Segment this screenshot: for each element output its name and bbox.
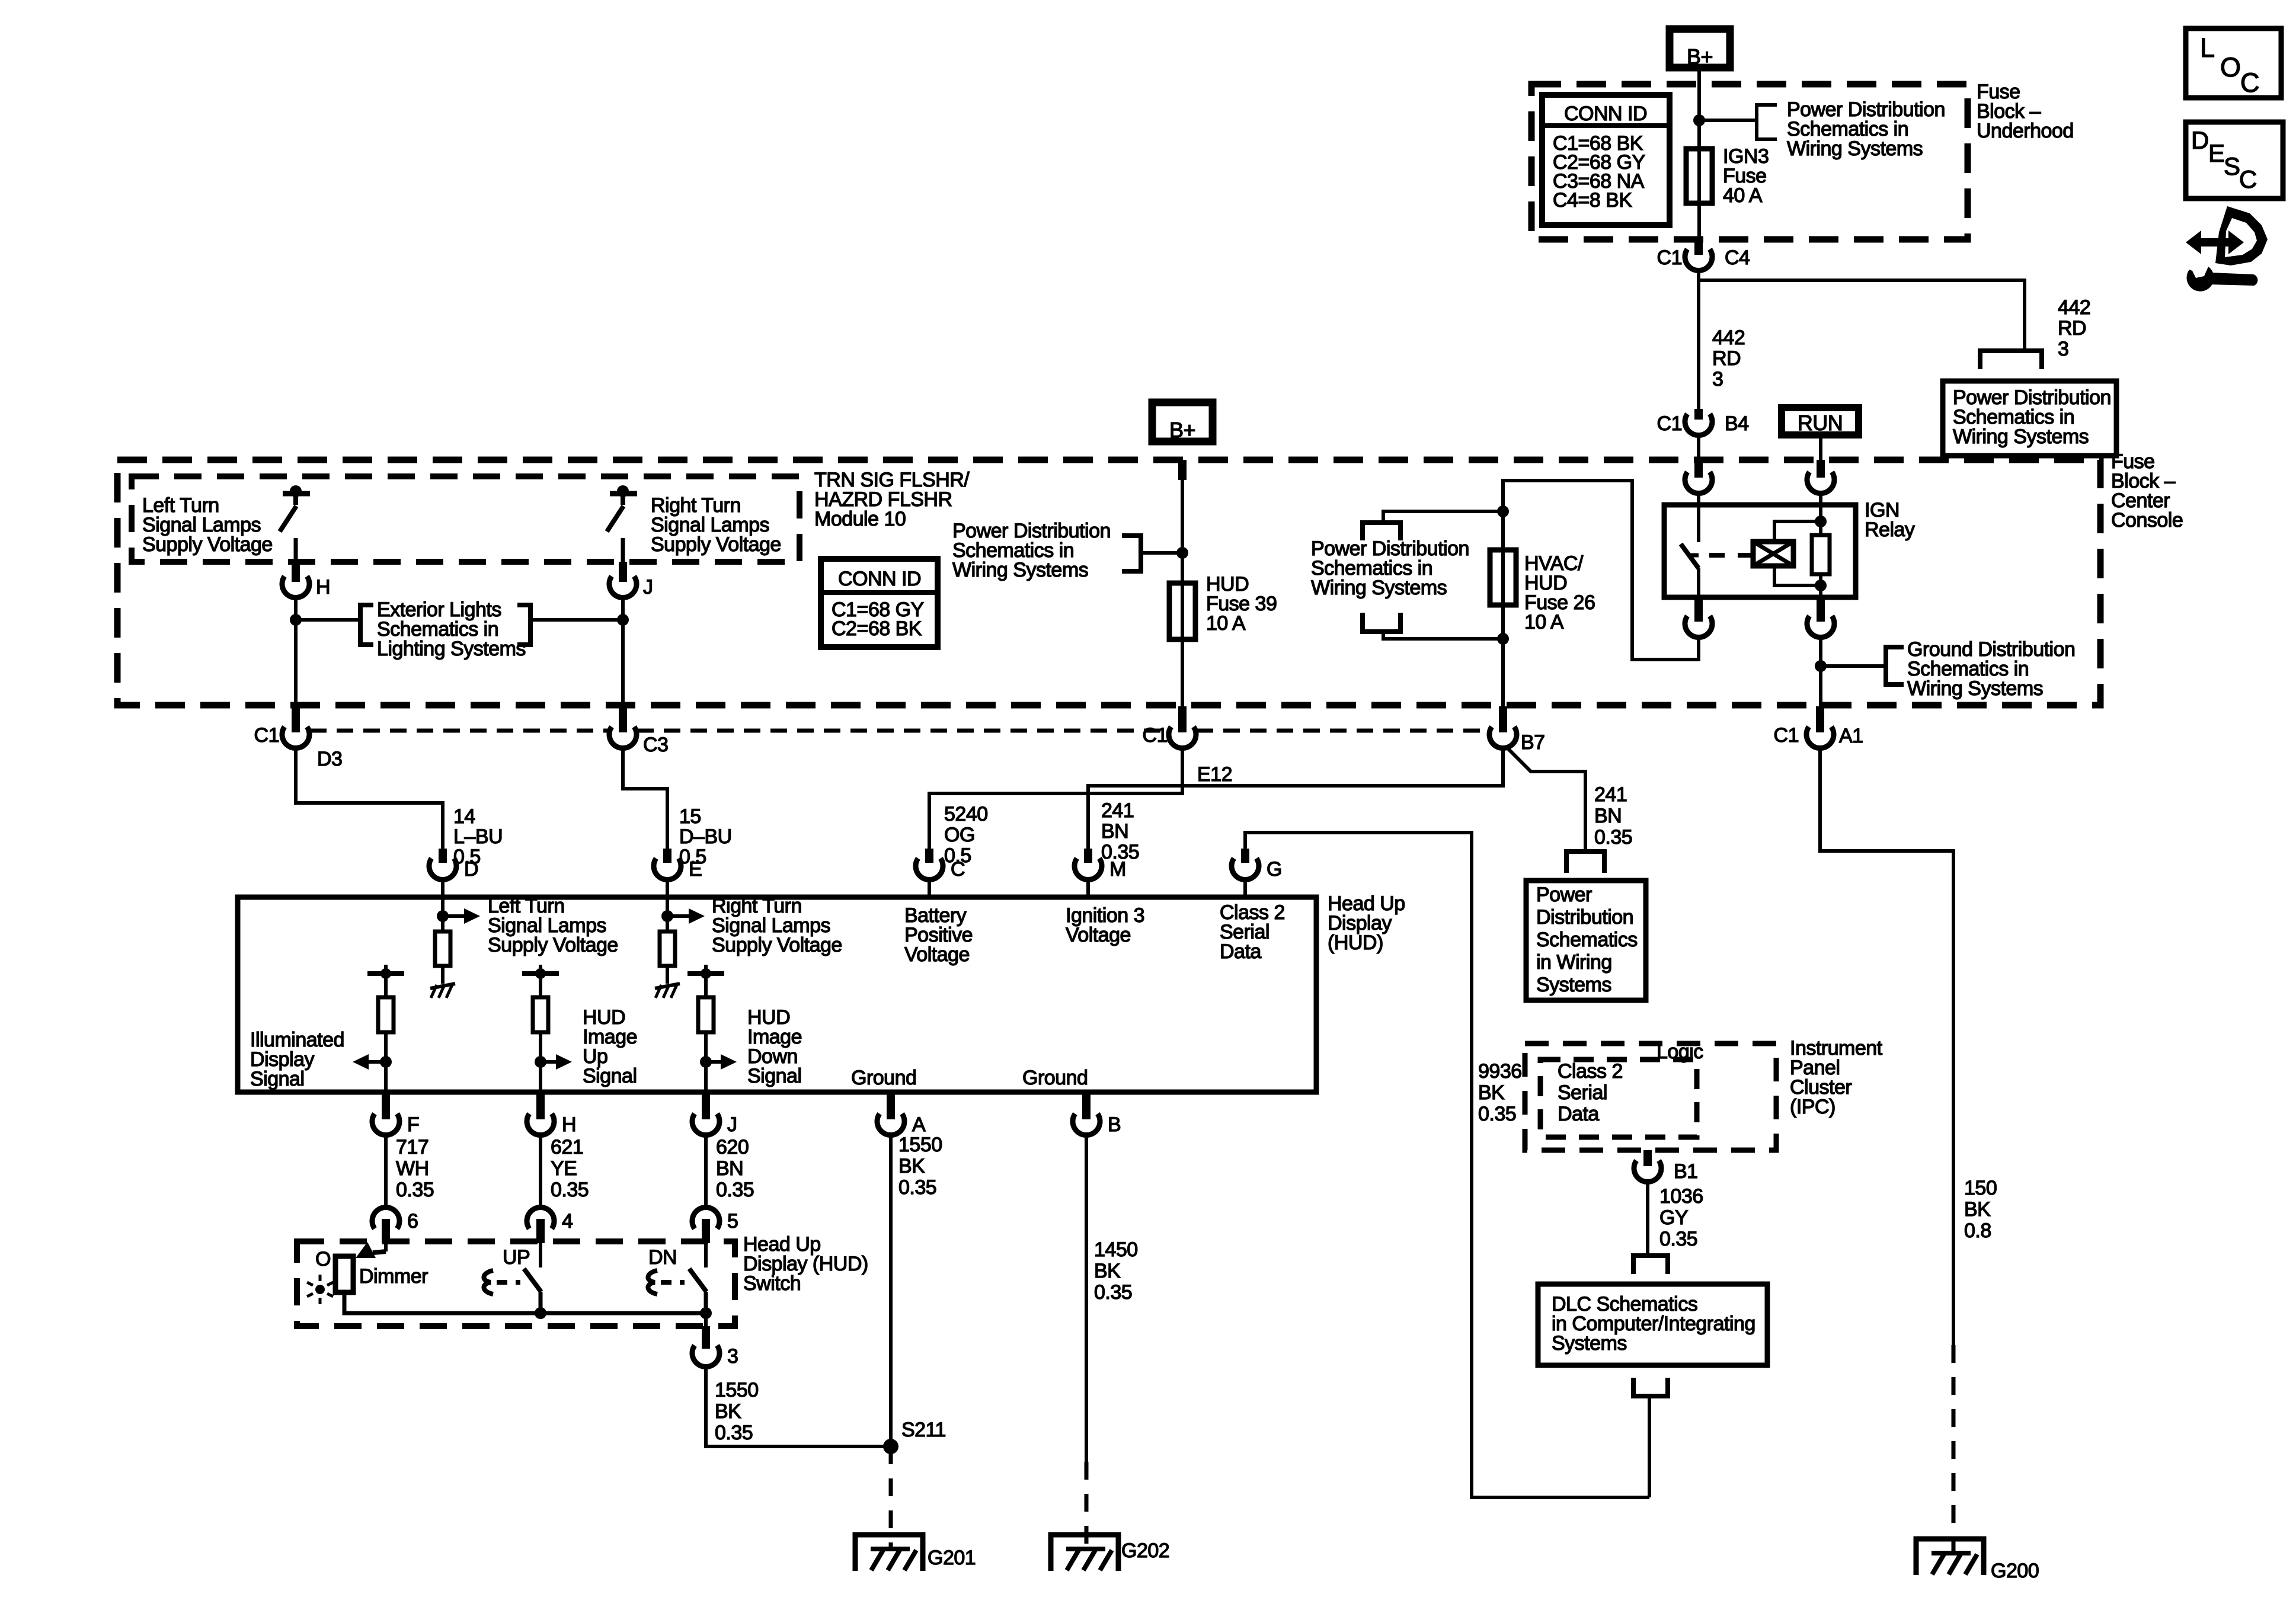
svg-text:10 A: 10 A <box>1206 612 1246 635</box>
fuse HVAC/HUD 26 10A <box>1490 550 1516 605</box>
LOC button box <box>2186 28 2281 98</box>
svg-text:S: S <box>2224 152 2240 180</box>
wire 5240 OG 0.5 from E12 <box>929 748 1182 856</box>
wire B+ through HUD fuse 39 <box>1181 480 1184 706</box>
svg-text:RD: RD <box>2058 317 2086 340</box>
svg-text:C: C <box>2239 165 2257 193</box>
relay switch pole <box>1697 492 1700 542</box>
svg-text:DN: DN <box>648 1246 677 1269</box>
coil bottom wire <box>1774 566 1821 585</box>
wire J to C3 <box>621 597 625 706</box>
relay output pins <box>1694 597 1703 622</box>
svg-text:150: 150 <box>1964 1177 1997 1199</box>
fuse block pin connector (left, bottom) <box>1685 616 1712 638</box>
svg-text:BN: BN <box>1101 820 1128 843</box>
svg-text:C3: C3 <box>643 734 668 756</box>
svg-text:6: 6 <box>407 1210 418 1233</box>
svg-text:F: F <box>407 1113 419 1136</box>
connector half-box below DLC <box>1633 1378 1668 1396</box>
junction HVAC fuse bottom <box>1497 633 1509 645</box>
svg-text:B4: B4 <box>1725 412 1749 435</box>
svg-text:B1: B1 <box>1674 1160 1698 1183</box>
svg-text:C: C <box>2240 68 2259 98</box>
svg-text:C1: C1 <box>1657 247 1682 269</box>
connector C1/A1 <box>1816 706 1824 732</box>
svg-text:1450: 1450 <box>1094 1238 1138 1261</box>
connector C1/D3 <box>282 727 309 748</box>
svg-text:0.35: 0.35 <box>396 1179 434 1201</box>
svg-text:Ground: Ground <box>1022 1067 1088 1089</box>
box DLC Schematics <box>1538 1284 1767 1365</box>
svg-text:L: L <box>2200 33 2215 63</box>
wire 442 RD 3 branch to power distribution <box>1699 280 2025 351</box>
connector 4 (switch) <box>527 1208 554 1229</box>
connector inline dashed line <box>310 729 609 733</box>
junction on B+ feed <box>1693 114 1705 126</box>
connector A (HUD) <box>887 1092 895 1119</box>
svg-text:B+: B+ <box>1169 418 1195 442</box>
interactive arrow-hand icon <box>2186 231 2244 254</box>
ground G201 <box>855 1535 923 1571</box>
callout bracket top <box>1363 523 1400 540</box>
junction at fuse 39 <box>1176 547 1188 559</box>
pin into connector E12 <box>1178 706 1187 732</box>
callout bracket to power distribution box <box>1980 351 2042 369</box>
connector C1/B4 <box>1685 414 1712 436</box>
svg-text:0.35: 0.35 <box>1478 1103 1516 1125</box>
wire class 2 serial data from G <box>1245 833 1649 1497</box>
DESC button box <box>2186 122 2283 199</box>
svg-text:Wiring Systems: Wiring Systems <box>1907 677 2043 700</box>
svg-text:D: D <box>464 858 478 881</box>
svg-text:CONN ID: CONN ID <box>1564 103 1647 125</box>
wire 241 BN 0.35 from B7 to M <box>1088 748 1503 856</box>
wire M into module <box>1086 879 1090 897</box>
dimmer rheostat <box>335 1256 353 1292</box>
svg-text:CONN ID: CONN ID <box>838 568 921 590</box>
svg-text:Distribution: Distribution <box>1536 906 1633 929</box>
connector C1/E12 <box>1169 727 1196 748</box>
callout bracket exterior lights left <box>360 605 373 645</box>
wire B7 branch diagonal <box>1506 747 1585 852</box>
svg-text:H: H <box>316 576 330 598</box>
fuse HUD 39 10A <box>1169 583 1195 639</box>
svg-text:UP: UP <box>503 1246 530 1269</box>
CONN ID table (underhood) <box>1542 95 1670 225</box>
callout bracket ground distribution <box>1886 647 1904 684</box>
svg-text:621: 621 <box>551 1136 583 1158</box>
HUD internal driver column H <box>539 965 542 974</box>
svg-text:Systems: Systems <box>1552 1332 1627 1355</box>
svg-text:in Wiring: in Wiring <box>1536 951 1612 974</box>
callout bracket exterior lights right <box>517 605 530 645</box>
svg-text:Class 2: Class 2 <box>1558 1060 1623 1083</box>
wire J to switch 5 <box>704 1135 708 1207</box>
svg-text:C1: C1 <box>1143 724 1168 747</box>
svg-text:3: 3 <box>1712 368 1723 391</box>
svg-text:Wiring Systems: Wiring Systems <box>1953 425 2089 448</box>
svg-text:J: J <box>727 1113 737 1136</box>
svg-text:OG: OG <box>944 824 975 846</box>
connector half-box to DLC <box>1633 1256 1668 1274</box>
svg-text:Supply Voltage: Supply Voltage <box>142 533 273 556</box>
wire 14 L-BU 0.5 <box>296 748 443 856</box>
wire H to C1/D3 <box>294 597 298 706</box>
HUD module box <box>238 897 1316 1092</box>
pin into connector D3 <box>292 706 300 732</box>
svg-text:241: 241 <box>1101 799 1134 822</box>
dashed wire to G200 <box>1952 1345 1956 1553</box>
pin into connector H <box>292 562 300 582</box>
wire 1550 BK to S211 <box>706 1367 891 1446</box>
dimmer output wire <box>344 1292 706 1313</box>
connector J (flasher) <box>609 577 637 598</box>
HUD internal driver column F <box>384 965 388 974</box>
callout bracket (TRN SIG area) <box>1122 536 1141 571</box>
connector C1/C4 <box>1685 249 1712 271</box>
IGN relay box <box>1664 505 1856 597</box>
svg-text:E: E <box>689 858 702 881</box>
svg-text:620: 620 <box>716 1136 749 1158</box>
power symbol B+ (center) <box>1152 402 1213 441</box>
svg-text:3: 3 <box>2058 338 2068 360</box>
svg-text:G201: G201 <box>928 1547 976 1569</box>
svg-text:Supply Voltage: Supply Voltage <box>712 934 842 956</box>
svg-text:0.35: 0.35 <box>715 1422 753 1444</box>
wire to power distribution callout <box>1699 119 1757 122</box>
wire relay ground leg to A1 <box>1819 636 1822 706</box>
svg-text:D: D <box>2191 126 2209 154</box>
chassis ground left <box>430 984 455 988</box>
svg-text:B+: B+ <box>1687 44 1713 69</box>
svg-text:B7: B7 <box>1521 731 1545 754</box>
svg-text:BK: BK <box>898 1155 925 1177</box>
svg-text:3: 3 <box>727 1345 738 1368</box>
svg-text:442: 442 <box>2058 296 2090 319</box>
connector F (HUD) <box>382 1092 390 1119</box>
connector B (HUD) <box>1082 1092 1091 1119</box>
svg-text:4: 4 <box>562 1210 573 1233</box>
relay resistor <box>1819 492 1822 535</box>
wire DLC loop to 9936 <box>1648 1396 1651 1497</box>
svg-text:O: O <box>2220 52 2241 82</box>
inner dashed box left/right turn supply <box>132 476 800 562</box>
relay switch output <box>1697 568 1700 597</box>
svg-text:0.8: 0.8 <box>1964 1219 1991 1242</box>
wire A ground inside module <box>889 1092 893 1095</box>
svg-text:Data: Data <box>1558 1103 1599 1125</box>
pin into connector B4 <box>1694 409 1703 420</box>
wire switch common to connector 3 <box>704 1313 708 1327</box>
wire C into module <box>928 879 931 897</box>
svg-text:C4=8 BK: C4=8 BK <box>1553 189 1632 212</box>
svg-text:O: O <box>315 1248 331 1270</box>
IPC logic dashed box <box>1525 1044 1776 1150</box>
power symbol RUN <box>1782 408 1859 435</box>
svg-text:(HUD): (HUD) <box>1328 932 1383 954</box>
svg-text:Lighting Systems: Lighting Systems <box>377 638 526 660</box>
resistor left turn <box>441 916 445 932</box>
wire B+ to IGN3 fuse <box>1697 68 1701 239</box>
callout bracket bottom <box>1363 613 1400 632</box>
resistor right turn <box>666 916 669 932</box>
arrow HUD image up <box>541 1060 558 1064</box>
ground G200 <box>1916 1539 1984 1575</box>
wire RUN into relay coil <box>1819 435 1822 461</box>
svg-text:10 A: 10 A <box>1524 611 1564 633</box>
svg-text:M: M <box>1109 858 1126 881</box>
svg-text:Module 10: Module 10 <box>814 508 906 530</box>
svg-text:C1: C1 <box>1774 724 1799 747</box>
HUD internal driver column J <box>704 965 708 974</box>
svg-text:E12: E12 <box>1197 763 1232 786</box>
svg-text:Voltage: Voltage <box>1066 924 1131 946</box>
svg-text:G: G <box>1267 858 1282 881</box>
svg-text:0.35: 0.35 <box>898 1176 936 1199</box>
svg-text:442: 442 <box>1712 327 1745 349</box>
svg-text:Relay: Relay <box>1865 518 1915 541</box>
dimmer feed arrow <box>384 1243 388 1251</box>
connector E <box>663 849 671 863</box>
wire D into module <box>441 879 445 916</box>
svg-text:D–BU: D–BU <box>679 825 732 848</box>
svg-text:Power: Power <box>1536 884 1592 906</box>
wire 150 BK 0.8 <box>1820 748 1953 1345</box>
fuse block pin connector (left, top) <box>1685 472 1712 494</box>
relay switch blade <box>1681 544 1699 568</box>
connector M <box>1084 849 1092 863</box>
svg-text:C4: C4 <box>1725 247 1750 269</box>
wire to power distribution callout <box>1141 551 1182 555</box>
left turn switch <box>283 491 310 497</box>
svg-text:C2=68 BK: C2=68 BK <box>832 617 922 640</box>
connector H (HUD) <box>536 1092 545 1119</box>
svg-text:BK: BK <box>715 1400 741 1423</box>
svg-text:A1: A1 <box>1839 725 1863 747</box>
coil top wire <box>1774 521 1821 542</box>
svg-text:Signal: Signal <box>747 1065 802 1087</box>
svg-text:L–BU: L–BU <box>453 825 503 848</box>
splice S211 <box>883 1439 898 1454</box>
wire G into module <box>1243 879 1247 897</box>
connector B7 <box>1489 727 1517 748</box>
wire B ground inside module <box>1085 1092 1088 1095</box>
HUD switch dashed box <box>297 1241 735 1326</box>
svg-text:J: J <box>643 576 653 598</box>
pin into connector B1 <box>1643 1150 1652 1166</box>
svg-text:1550: 1550 <box>898 1134 942 1156</box>
svg-text:C1: C1 <box>254 724 279 747</box>
svg-text:S211: S211 <box>901 1419 946 1441</box>
svg-text:Console: Console <box>2111 509 2183 532</box>
svg-text:D3: D3 <box>317 748 342 770</box>
svg-text:C1: C1 <box>1657 412 1682 435</box>
connector C3 <box>609 727 637 748</box>
wire to ground distribution callout <box>1821 664 1886 668</box>
wire from callout (lower) <box>1383 632 1503 639</box>
box Power Distribution Schematics in Wiring Systems (B7) <box>1526 881 1646 1000</box>
dashed wire to G202 <box>1085 1462 1089 1549</box>
svg-text:H: H <box>562 1113 576 1136</box>
CONN ID table (flasher) <box>821 559 938 647</box>
svg-text:Wiring Systems: Wiring Systems <box>1311 577 1447 599</box>
svg-text:40 A: 40 A <box>1723 184 1763 207</box>
pin into connector B7 <box>1499 706 1507 732</box>
svg-text:Schematics: Schematics <box>1536 929 1638 951</box>
svg-text:Systems: Systems <box>1536 974 1611 996</box>
wire H to switch 4 <box>539 1135 542 1207</box>
wire A to S211 <box>889 1135 893 1446</box>
wire 15 D-BU 0.5 <box>623 748 667 856</box>
svg-text:WH: WH <box>396 1157 429 1180</box>
connector G <box>1241 849 1249 863</box>
svg-text:C: C <box>951 858 965 881</box>
svg-text:BK: BK <box>1094 1260 1121 1282</box>
svg-text:0.35: 0.35 <box>1594 826 1632 849</box>
callout bracket power distribution (underhood) <box>1757 105 1777 139</box>
svg-text:BN: BN <box>1594 805 1622 827</box>
chassis ground right <box>655 984 680 988</box>
svg-text:241: 241 <box>1594 783 1627 806</box>
svg-text:G200: G200 <box>1991 1560 2039 1582</box>
arrow HUD image down <box>706 1060 723 1064</box>
svg-text:G202: G202 <box>1121 1539 1169 1562</box>
connector B1 <box>1634 1161 1661 1182</box>
wire B4 into relay <box>1697 435 1700 461</box>
junction HVAC fuse top <box>1497 505 1509 517</box>
connector C <box>928 856 931 859</box>
svg-text:E: E <box>2208 139 2225 167</box>
svg-text:15: 15 <box>679 805 701 828</box>
connector H (flasher) <box>282 577 309 598</box>
svg-text:5240: 5240 <box>944 803 988 825</box>
right turn switch <box>610 491 637 497</box>
svg-text:A: A <box>912 1113 926 1136</box>
svg-text:0.35: 0.35 <box>1659 1228 1697 1250</box>
illumination star <box>315 1285 325 1294</box>
svg-text:Wiring Systems: Wiring Systems <box>1787 137 1923 160</box>
arrow illuminated display signal <box>366 1060 386 1064</box>
wire 442 RD 3 down to B4 <box>1697 270 1700 409</box>
ground G202 <box>1051 1535 1118 1571</box>
svg-text:0.35: 0.35 <box>1094 1281 1132 1304</box>
svg-text:Underhood: Underhood <box>1977 120 2074 142</box>
svg-text:0.35: 0.35 <box>716 1179 754 1201</box>
svg-text:Signal: Signal <box>583 1065 637 1087</box>
svg-text:BK: BK <box>1964 1198 1991 1221</box>
svg-text:1036: 1036 <box>1659 1185 1703 1208</box>
svg-text:Supply Voltage: Supply Voltage <box>651 533 781 556</box>
wire E into module <box>666 879 669 916</box>
svg-text:0.35: 0.35 <box>551 1179 589 1201</box>
relay linkage dashes <box>1709 553 1752 558</box>
svg-text:RD: RD <box>1712 347 1741 370</box>
fuse block pin connector (right, bottom) <box>1807 616 1834 638</box>
svg-text:14: 14 <box>453 805 475 828</box>
svg-text:Ground: Ground <box>851 1067 916 1089</box>
pin into connector C4 <box>1694 239 1703 255</box>
dashed wire to G201 <box>889 1446 893 1549</box>
fuse block pin connector (right, top) <box>1807 472 1834 494</box>
svg-text:Wiring Systems: Wiring Systems <box>952 559 1088 581</box>
svg-text:(IPC): (IPC) <box>1790 1096 1835 1118</box>
connector J (HUD) <box>702 1092 710 1119</box>
wire to exterior lights callout (left) <box>296 618 360 622</box>
svg-text:Signal: Signal <box>250 1068 305 1090</box>
pin into connector J <box>619 562 627 582</box>
svg-text:RUN: RUN <box>1798 411 1843 435</box>
svg-text:YE: YE <box>551 1157 577 1180</box>
wire B to G202 <box>1085 1135 1088 1462</box>
svg-text:717: 717 <box>396 1136 428 1158</box>
fuse block center console dashed box <box>117 460 2100 705</box>
svg-text:Supply Voltage: Supply Voltage <box>488 934 618 956</box>
power symbol B+ (top) <box>1670 29 1730 68</box>
svg-text:9936: 9936 <box>1478 1060 1522 1083</box>
relay coil box with X <box>1753 542 1793 566</box>
svg-text:GY: GY <box>1659 1206 1688 1229</box>
wire F to switch 6 <box>384 1135 388 1207</box>
inner class 2 serial data dashed box <box>1540 1060 1697 1137</box>
wire relay output to HVAC/HUD fuse <box>1503 481 1699 706</box>
wire to exterior lights callout (right) <box>530 618 623 622</box>
connector 6 (switch) <box>372 1208 399 1229</box>
svg-text:5: 5 <box>727 1210 738 1233</box>
fuse IGN3 40 A <box>1686 149 1712 203</box>
fuse block underhood dashed box <box>1531 84 1968 239</box>
svg-text:Serial: Serial <box>1558 1081 1607 1104</box>
svg-text:Voltage: Voltage <box>904 943 970 966</box>
svg-text:BN: BN <box>716 1157 743 1180</box>
svg-text:1550: 1550 <box>715 1379 759 1401</box>
connector 5 (switch) <box>692 1208 720 1229</box>
connector 3 (switch) <box>692 1346 720 1367</box>
svg-text:B: B <box>1108 1113 1121 1136</box>
svg-text:Switch: Switch <box>743 1272 801 1295</box>
box Power Distribution Schematics in Wiring Systems (right) <box>1943 381 2116 456</box>
pin into connector C3 <box>619 706 627 732</box>
callout bracket to power distribution box (B7) <box>1566 852 1604 873</box>
wire to power distribution callout (upper) <box>1383 511 1503 523</box>
svg-text:BK: BK <box>1478 1081 1505 1104</box>
wire 1036 GY 0.35 <box>1646 1183 1649 1256</box>
svg-text:Dimmer: Dimmer <box>359 1265 428 1288</box>
svg-text:Data: Data <box>1220 940 1261 963</box>
connector D <box>439 849 447 863</box>
